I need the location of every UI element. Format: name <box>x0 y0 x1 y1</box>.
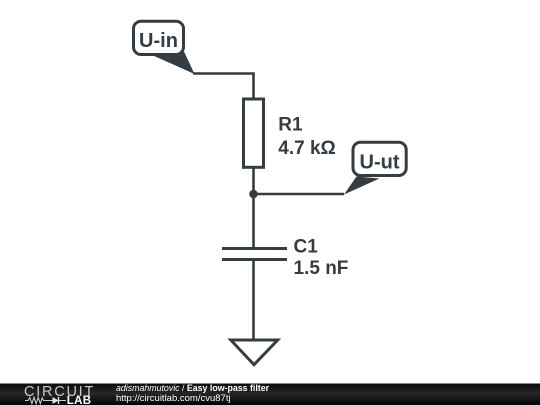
capacitor C1 bottom plate <box>222 258 287 261</box>
wire capacitor bottom to ground <box>252 260 255 341</box>
node flag U-ut pointer <box>344 177 380 195</box>
svg-text:http://circuitlab.com/cvu87tj: http://circuitlab.com/cvu87tj <box>116 393 231 404</box>
resistor R1 labels <box>278 115 336 160</box>
node flag U-in <box>134 21 184 54</box>
svg-text:U-ut: U-ut <box>360 152 400 174</box>
wire node to U-ut pointer <box>254 193 345 196</box>
resistor R1 <box>244 99 264 167</box>
wire resistor bottom to node <box>252 168 255 195</box>
svg-text:LAB: LAB <box>67 395 92 405</box>
node flag U-in pointer <box>152 52 195 75</box>
svg-text:4.7 kΩ: 4.7 kΩ <box>278 138 336 159</box>
node flag U-ut <box>353 142 406 175</box>
CircuitLab logo: diode <box>49 397 66 404</box>
svg-text:U-in: U-in <box>139 30 178 52</box>
svg-text:C1: C1 <box>294 237 319 258</box>
junction node <box>249 190 258 199</box>
wire from U-in to resistor top <box>193 74 254 99</box>
capacitor C1 labels <box>294 237 349 280</box>
svg-text:1.5 nF: 1.5 nF <box>294 258 349 279</box>
ground <box>231 340 278 365</box>
svg-text:adismahmutovic / Easy low-pass: adismahmutovic / Easy low-pass filter <box>116 383 270 393</box>
footer bar <box>0 384 540 405</box>
CircuitLab logo: resistor zigzag <box>25 397 49 403</box>
svg-text:R1: R1 <box>278 115 303 136</box>
capacitor C1 top plate <box>222 247 287 250</box>
wire node to capacitor top plate <box>252 194 255 249</box>
